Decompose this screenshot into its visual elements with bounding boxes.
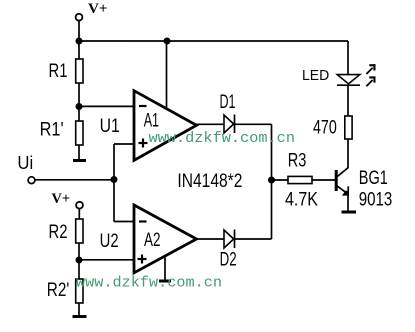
node V+ terminal 1 xyxy=(76,14,83,21)
wire D1 to right bus xyxy=(235,123,272,125)
wire LED to resistor 470 xyxy=(347,85,349,116)
svg-text:LED: LED xyxy=(302,67,329,84)
svg-text:R1': R1' xyxy=(40,119,64,140)
svg-text:D1: D1 xyxy=(220,92,236,113)
wire R1 top lead xyxy=(78,41,80,59)
wire R2' to ground xyxy=(78,303,80,316)
diode D1 xyxy=(224,115,234,133)
ground under R2' xyxy=(73,315,87,318)
svg-text:U2: U2 xyxy=(100,231,119,252)
node V+ terminal 2 xyxy=(76,202,83,209)
LED arrow 2 xyxy=(366,80,372,86)
svg-text:R2': R2' xyxy=(47,280,70,301)
ground under R1' xyxy=(73,159,86,162)
wire A1 output xyxy=(197,123,225,125)
transistor Q1 collector xyxy=(336,168,348,178)
node junction dot left top xyxy=(76,38,83,45)
svg-text:A2: A2 xyxy=(144,230,161,251)
svg-text:R1: R1 xyxy=(49,61,68,82)
svg-text:IN4148*2: IN4148*2 xyxy=(177,171,242,192)
svg-text:BG1: BG1 xyxy=(359,168,388,189)
op-amp U2 plus sign xyxy=(138,258,147,260)
resistor R1 xyxy=(76,59,83,83)
resistor R1' xyxy=(76,121,83,145)
svg-text:www.dzkfw.com.cn: www.dzkfw.com.cn xyxy=(149,129,296,147)
svg-text:R2: R2 xyxy=(49,222,68,243)
svg-text:470: 470 xyxy=(313,118,337,139)
svg-text:D2: D2 xyxy=(220,250,237,271)
svg-text:V+: V+ xyxy=(88,1,108,17)
wire R1 to R1' xyxy=(78,83,80,121)
wire A2 output xyxy=(197,238,225,240)
LED D3 xyxy=(337,75,360,84)
transistor Q1 emitter arrowhead xyxy=(342,190,349,195)
wire U2 ground stem xyxy=(164,256,166,280)
wire input rail vertical xyxy=(113,144,115,222)
op-amp U1 plus sign xyxy=(139,142,148,144)
wire R2 to R2' xyxy=(78,243,80,279)
svg-text:R3: R3 xyxy=(288,150,307,171)
wire R1' to ground xyxy=(78,145,80,160)
wire collector rail top xyxy=(347,41,349,74)
wire right bus vertical xyxy=(271,124,273,239)
wire tap to A2 non-inverting input xyxy=(79,259,134,261)
node junction dot R1 tap xyxy=(76,103,83,110)
node junction dot A1 supply xyxy=(164,38,171,45)
wire rail to A1 non-inverting input xyxy=(114,143,134,145)
op-amp U1 minus sign xyxy=(139,105,147,107)
wire R3 to base xyxy=(312,179,335,181)
transistor Q1 emitter xyxy=(336,185,346,193)
resistor 470 xyxy=(345,116,352,139)
wire D2 to right bus xyxy=(235,238,272,240)
resistor R2 xyxy=(76,219,83,243)
svg-text:9013: 9013 xyxy=(359,189,393,210)
ground under transistor xyxy=(342,211,357,214)
node Ui terminal xyxy=(28,177,35,184)
svg-text:V+: V+ xyxy=(52,191,71,207)
ground under U2 xyxy=(159,280,171,283)
op-amp U2 xyxy=(134,205,197,273)
wire emitter vertical xyxy=(347,186,349,196)
wire rail to A2 inverting input xyxy=(114,221,134,223)
LED arrow 1 xyxy=(366,68,372,74)
wire bus to R3 xyxy=(272,179,289,181)
resistor R2' xyxy=(76,279,83,303)
node junction dot R2 tap xyxy=(76,257,83,264)
svg-text:U1: U1 xyxy=(100,116,120,137)
svg-text:Ui: Ui xyxy=(17,153,33,173)
svg-text:www.dzkfw.com.cn: www.dzkfw.com.cn xyxy=(76,274,222,292)
wire A1 supply stem xyxy=(166,41,168,109)
resistor R3 xyxy=(288,176,312,183)
op-amp U1 xyxy=(134,91,197,161)
diode D2 xyxy=(224,230,234,248)
svg-text:4.7K: 4.7K xyxy=(285,189,318,210)
wire V+ stem xyxy=(78,21,80,42)
transistor Q1 base bar xyxy=(335,170,338,191)
node junction dot right bus xyxy=(268,177,275,184)
node junction dot input rail xyxy=(111,176,118,183)
wire top rail xyxy=(79,40,348,42)
wire tap to A1 inverting input xyxy=(79,105,134,107)
wire emitter to ground xyxy=(347,196,349,212)
wire 470 to collector xyxy=(347,139,349,168)
op-amp U2 minus sign xyxy=(139,220,147,222)
wire V+2 stem xyxy=(78,208,80,219)
wire Ui to input rail xyxy=(35,179,114,181)
